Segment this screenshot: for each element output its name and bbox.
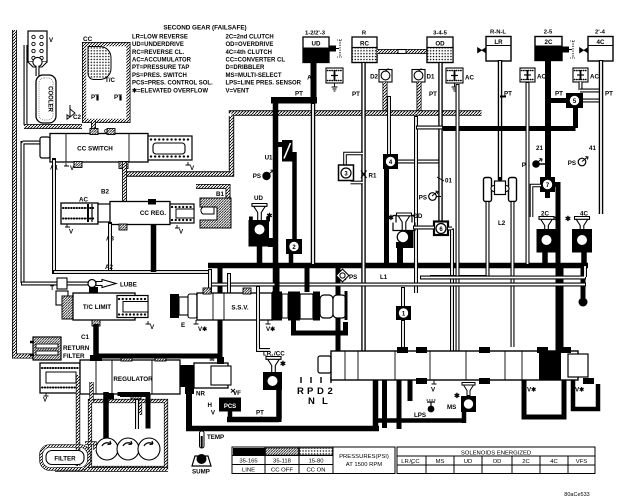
svg-text:1-2/2'-3: 1-2/2'-3 — [305, 31, 326, 37]
lube circuit — [21, 278, 137, 289]
svg-text:OD=OVERDRIVE: OD=OVERDRIVE — [226, 42, 274, 48]
svg-text:L1: L1 — [380, 274, 388, 281]
outer sump border — [55, 375, 168, 470]
svg-text:LINE: LINE — [242, 468, 255, 474]
vent V (CC switch right) — [186, 162, 196, 172]
gear letters — [297, 386, 333, 407]
wire regulator top feed — [96, 354, 218, 359]
svg-text:PS=PRES. SWITCH: PS=PRES. SWITCH — [132, 73, 187, 79]
svg-text:2C=2nd CLUTCH: 2C=2nd CLUTCH — [226, 34, 274, 40]
switch PS (U1) — [253, 170, 274, 180]
wire CC REG feed down — [151, 225, 157, 272]
pumps — [96, 438, 160, 460]
svg-text:PS: PS — [419, 195, 427, 202]
legend right column — [226, 34, 302, 94]
clutch LR box — [478, 37, 512, 62]
svg-text:AC=ACCUMULATOR: AC=ACCUMULATOR — [132, 58, 192, 64]
svg-text:✱: ✱ — [554, 215, 560, 223]
wire RC drop — [361, 62, 366, 352]
svg-text:V✱: V✱ — [575, 387, 584, 394]
svg-text:E: E — [181, 322, 185, 329]
valve C2 — [67, 105, 81, 121]
svg-text:CC REG.: CC REG. — [140, 210, 166, 217]
svg-text:AT 1500 RPM: AT 1500 RPM — [346, 462, 383, 468]
valve NR boost — [180, 357, 231, 398]
channel cooler to converter — [24, 124, 82, 129]
wire CC switch left loop — [23, 141, 41, 283]
switch PS (L1) — [336, 269, 357, 282]
svg-text:80aCe533: 80aCe533 — [564, 492, 589, 498]
2C right bleed connector — [562, 41, 576, 58]
svg-text:LPS: LPS — [414, 412, 426, 419]
clutch RC box — [352, 37, 377, 63]
wire LR drop — [498, 60, 503, 180]
svg-text:UD: UD — [312, 41, 321, 48]
torque converter chamber — [85, 45, 129, 121]
svg-text:V✱: V✱ — [266, 326, 275, 333]
svg-text:OD: OD — [435, 41, 445, 48]
svg-text:UD=UNDERDRIVE: UD=UNDERDRIVE — [132, 42, 184, 48]
svg-text:FILTER: FILTER — [63, 353, 85, 360]
vent stack above cooler — [28, 31, 54, 67]
wire ssv under-loop — [294, 320, 346, 333]
svg-text:V✱: V✱ — [527, 387, 536, 394]
valve CC SWITCH — [40, 129, 192, 169]
solenoid PCS — [208, 389, 242, 419]
svg-text:LPS=LINE PRES. SENSOR: LPS=LINE PRES. SENSOR — [226, 81, 302, 87]
svg-text:T: T — [50, 285, 54, 292]
wire manual drop1 — [373, 380, 379, 431]
wire UD feed thick — [311, 62, 317, 100]
junction 4 — [383, 154, 440, 263]
svg-text:SUMP: SUMP — [192, 469, 210, 476]
svg-text:PT: PT — [429, 91, 437, 98]
junction 2 — [286, 152, 302, 265]
wire 6 to manual valve — [450, 292, 454, 352]
wire A2 drop to SSV — [208, 269, 212, 314]
clutch UD box — [303, 37, 329, 63]
accumulator AC (4C) — [573, 68, 601, 91]
valve U1 — [265, 140, 293, 162]
channel D1 drop — [417, 82, 422, 111]
svg-text:2C: 2C — [522, 459, 530, 465]
svg-text:PCS=PRES. CONTROL SOL.: PCS=PRES. CONTROL SOL. — [132, 81, 213, 87]
wire UD horizontal bar — [271, 97, 317, 104]
svg-text:35-165: 35-165 — [239, 459, 258, 465]
wire cooler inlet — [24, 45, 28, 125]
channel B2 drop — [122, 162, 127, 202]
svg-text:MS=MULTI-SELECT: MS=MULTI-SELECT — [226, 73, 282, 79]
vent V* (ssv right) — [266, 320, 276, 333]
wire A1 drop — [52, 158, 56, 272]
pump enclosure — [90, 382, 166, 468]
svg-text:L: L — [322, 396, 328, 407]
svg-text:CC: CC — [83, 36, 93, 43]
wire below manual loop1 — [524, 380, 564, 417]
solenoid UD — [249, 195, 277, 265]
svg-text:C1: C1 — [81, 334, 89, 341]
svg-text:4C: 4C — [550, 459, 558, 465]
svg-text:COOLER: COOLER — [47, 86, 53, 112]
switch PS (4C) — [568, 157, 588, 168]
svg-text:SECOND GEAR (FAILSAFE): SECOND GEAR (FAILSAFE) — [163, 25, 246, 32]
wire L2 left leg — [430, 201, 488, 277]
wire line UD main vertical — [273, 100, 279, 293]
label PT (pcs) — [256, 410, 264, 421]
dribbler D1 — [412, 69, 435, 83]
svg-text:LUBE: LUBE — [120, 282, 137, 289]
label 01 — [437, 177, 452, 185]
svg-text:V=VENT: V=VENT — [226, 88, 250, 94]
valve REGULATOR — [40, 355, 180, 404]
svg-text:NR: NR — [196, 391, 205, 398]
svg-text:T/C: T/C — [105, 77, 115, 84]
valve S.S.V. — [188, 288, 346, 321]
wire UD bar to bus — [311, 103, 316, 264]
svg-text:D2: D2 — [370, 74, 378, 81]
wire D1 to 01 link — [416, 126, 443, 130]
wire manual drop2 — [382, 380, 387, 428]
svg-text:SOLENOIDS ENERGIZED: SOLENOIDS ENERGIZED — [461, 451, 531, 457]
junction 1 — [396, 287, 411, 351]
junction 6 — [413, 222, 452, 293]
svg-text:2: 2 — [328, 386, 333, 397]
svg-text:OD: OD — [413, 213, 423, 220]
junction 7 — [540, 177, 555, 192]
svg-text:VFS: VFS — [576, 459, 588, 465]
pressure table — [232, 447, 395, 474]
svg-text:4C=4th CLUTCH: 4C=4th CLUTCH — [226, 50, 273, 56]
svg-text:✱: ✱ — [454, 392, 460, 400]
channel dribbler bar — [232, 110, 482, 116]
wire below manual loop2 — [573, 380, 598, 409]
svg-text:AC: AC — [590, 74, 599, 81]
solenoid OD — [388, 213, 423, 263]
wire D1 line to SSV — [414, 116, 418, 293]
svg-text:RETURN: RETURN — [63, 345, 90, 352]
solenoid 4C — [565, 211, 592, 265]
svg-text:N: N — [308, 396, 315, 407]
svg-text:H: H — [208, 402, 213, 409]
svg-text:PRESSURES(PSI): PRESSURES(PSI) — [339, 454, 389, 460]
wire LR PT drop — [456, 84, 460, 352]
svg-text:CC=CONVERTER CL: CC=CONVERTER CL — [226, 58, 286, 64]
svg-text:A2: A2 — [105, 264, 113, 271]
svg-text:41: 41 — [589, 145, 596, 152]
svg-text:AC: AC — [465, 75, 474, 82]
svg-text:15-80: 15-80 — [308, 459, 324, 465]
channel RC-OD link — [377, 50, 427, 54]
vent V* (ssv left) — [194, 320, 208, 333]
wire C1 drop — [93, 324, 99, 362]
svg-text:VF: VF — [233, 390, 241, 397]
wire 7 right leg — [555, 185, 558, 353]
valve E block — [170, 294, 190, 318]
valve CC REG — [98, 199, 194, 236]
pump feeds — [103, 392, 109, 440]
svg-text:21: 21 — [536, 145, 543, 152]
svg-text:PS: PS — [253, 173, 261, 180]
svg-text:UD: UD — [254, 195, 263, 202]
svg-text:REGULATOR: REGULATOR — [113, 376, 153, 383]
switch PS (2C) — [522, 159, 548, 170]
filter — [41, 443, 95, 469]
svg-text:TEMP: TEMP — [207, 434, 224, 441]
wire AC 2C drop — [526, 82, 530, 264]
wire 2C thick drop — [545, 60, 551, 178]
svg-text:✱: ✱ — [565, 215, 571, 223]
wire L2 right leg — [511, 201, 515, 347]
wire L1 double horizontal — [210, 283, 586, 287]
junction 5 — [548, 93, 601, 108]
servo B1 — [200, 198, 231, 228]
sensor LPS — [414, 400, 436, 419]
wire manual valve feed — [336, 268, 341, 352]
wire OD drop 01 line — [438, 62, 443, 228]
svg-text:C2: C2 — [73, 114, 81, 121]
wire A2 horizontal — [52, 270, 212, 274]
clutch OD box — [427, 37, 453, 63]
svg-text:L2: L2 — [498, 220, 506, 227]
svg-text:01: 01 — [445, 178, 452, 185]
svg-text:MS: MS — [436, 459, 445, 465]
svg-text:✱=ELEVATED OVERFLOW: ✱=ELEVATED OVERFLOW — [132, 87, 208, 94]
svg-text:/CC: /CC — [409, 459, 420, 465]
junction 3 — [339, 154, 367, 183]
svg-text:PT=PRESSURE TAP: PT=PRESSURE TAP — [132, 65, 189, 71]
wire main line bus — [208, 263, 588, 269]
svg-text:AC: AC — [307, 75, 316, 82]
dribbler D2 — [370, 69, 392, 83]
cooler — [36, 75, 56, 123]
svg-text:CC ON: CC ON — [307, 468, 326, 474]
left hatched border — [15, 30, 34, 356]
sump — [192, 454, 211, 476]
tick PT LR — [500, 96, 506, 98]
wire ssv to pump valve — [218, 318, 223, 364]
vent V (manual) — [431, 380, 437, 394]
legend left column — [132, 34, 213, 94]
channel D2 drop — [383, 82, 388, 111]
wire bottom thick bus1 — [227, 417, 279, 423]
svg-text:UD: UD — [464, 459, 473, 465]
solenoid LRL/CC — [263, 351, 286, 420]
svg-text:LR=LOW REVERSE: LR=LOW REVERSE — [132, 34, 188, 40]
wire 2C below-bus drop — [559, 268, 564, 352]
svg-text:2C: 2C — [545, 39, 553, 46]
channel chamber to cc switch — [91, 121, 96, 134]
wire 4C below-bus drop — [581, 268, 586, 298]
svg-text:PS: PS — [349, 274, 357, 281]
accumulator AC (LR) — [520, 68, 546, 82]
svg-text:R-N-L: R-N-L — [490, 30, 506, 36]
svg-text:T/C LIMIT: T/C LIMIT — [83, 304, 111, 311]
accumulator AC (OD) — [446, 68, 474, 91]
svg-text:R: R — [362, 31, 367, 37]
manual valve — [318, 347, 594, 384]
valve T/C LIMIT — [56, 287, 155, 331]
svg-text:MS: MS — [447, 404, 456, 411]
wire 4-circuit cross line — [443, 108, 576, 129]
svg-text:CC OFF: CC OFF — [271, 468, 293, 474]
wire A3 drop — [108, 222, 112, 272]
svg-text:35-118: 35-118 — [273, 459, 292, 465]
switch PS (OD) — [419, 191, 441, 202]
svg-text:B1: B1 — [216, 191, 224, 198]
clutch 4C box — [580, 37, 614, 62]
channel B2 riser — [126, 116, 232, 174]
wire bus to ssv stub — [218, 268, 223, 294]
svg-text:D1: D1 — [427, 74, 435, 81]
svg-text:R1: R1 — [369, 173, 377, 180]
svg-text:LR: LR — [494, 39, 503, 46]
svg-text:RC: RC — [360, 41, 369, 48]
UD right bleed connector — [329, 40, 343, 57]
svg-text:✱: ✱ — [280, 360, 286, 368]
wire 4C drop — [599, 60, 604, 214]
wire L1 to ssv stub — [227, 273, 231, 293]
svg-text:3-4-5: 3-4-5 — [433, 31, 447, 37]
svg-text:2-5: 2-5 — [544, 30, 553, 36]
svg-text:D=DRIBBLER: D=DRIBBLER — [226, 65, 266, 71]
svg-text:2'-4: 2'-4 — [595, 30, 606, 36]
wire ssv top stubs — [275, 268, 280, 293]
gear position ticks — [301, 377, 331, 383]
vent V (CC switch) — [64, 163, 75, 172]
return filter — [30, 337, 90, 360]
solenoid MS — [377, 383, 476, 424]
svg-text:LR: LR — [401, 459, 409, 465]
svg-text:PT: PT — [295, 91, 303, 98]
svg-text:PT: PT — [352, 91, 360, 98]
wire upper L1 branch — [420, 265, 586, 278]
svg-text:B2: B2 — [101, 189, 109, 196]
solenoid table — [397, 447, 595, 474]
clutch 2C box — [535, 37, 562, 61]
svg-text:R: R — [297, 386, 304, 397]
wire R1 feed — [387, 96, 391, 154]
cooler stem — [36, 66, 40, 76]
svg-text:FILTER: FILTER — [54, 456, 76, 463]
accumulator AC (UD) — [307, 68, 343, 91]
svg-text:OD: OD — [493, 459, 502, 465]
channel B1 link — [196, 187, 228, 198]
wire lrcc feed — [258, 286, 270, 350]
svg-text:RC=REVERSE CL.: RC=REVERSE CL. — [132, 50, 185, 56]
svg-text:PS: PS — [568, 160, 576, 167]
svg-text:V✱: V✱ — [198, 326, 207, 333]
svg-text:PT: PT — [555, 91, 563, 98]
svg-text:CC SWITCH: CC SWITCH — [77, 146, 113, 153]
svg-text:4C: 4C — [597, 39, 605, 46]
wire 7 to 2C sol — [545, 192, 550, 198]
svg-text:PT: PT — [256, 410, 264, 417]
svg-text:S.S.V.: S.S.V. — [231, 305, 249, 312]
wire bottom thick bus2 — [186, 426, 379, 432]
accumulator L2 — [484, 177, 517, 202]
wire NR drop — [186, 394, 192, 428]
svg-text:U1: U1 — [265, 155, 273, 162]
svg-text:PCS: PCS — [224, 404, 236, 410]
thermometer TEMP — [200, 431, 225, 448]
accumulator AC (mid) — [61, 197, 98, 236]
svg-text:PT: PT — [605, 91, 613, 98]
solenoid 2C — [537, 211, 561, 265]
